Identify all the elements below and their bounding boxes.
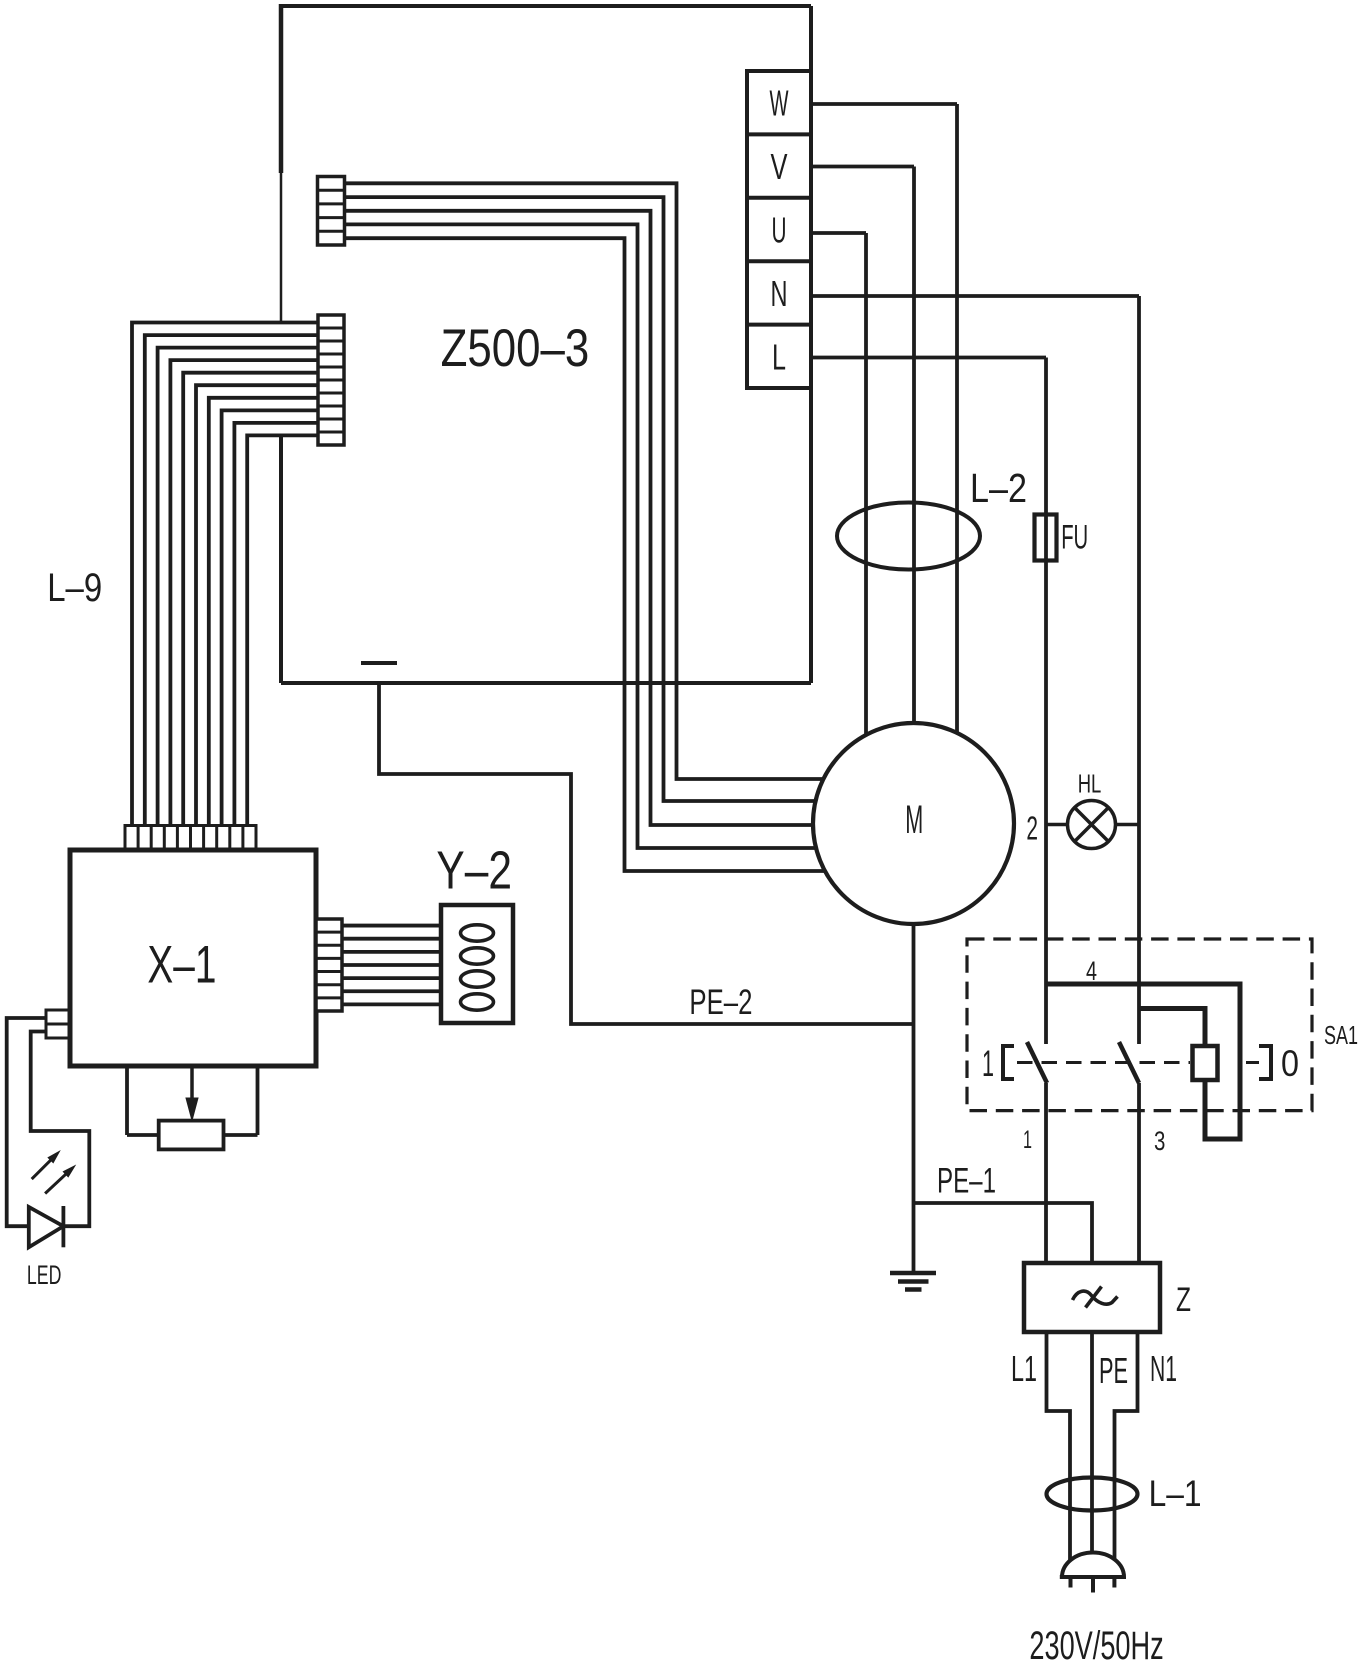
- svg-text:PE–2: PE–2: [689, 983, 752, 1022]
- svg-text:M: M: [905, 798, 923, 842]
- svg-text:0: 0: [1281, 1043, 1299, 1084]
- svg-text:LED: LED: [27, 1260, 62, 1290]
- svg-text:X–1: X–1: [147, 936, 216, 995]
- svg-text:L–9: L–9: [47, 566, 102, 610]
- svg-text:1: 1: [1023, 1126, 1032, 1154]
- svg-text:L1: L1: [1011, 1348, 1037, 1389]
- svg-text:Y–2: Y–2: [436, 841, 512, 901]
- svg-text:PE–1: PE–1: [937, 1162, 996, 1201]
- svg-text:230V/50Hz: 230V/50Hz: [1029, 1624, 1163, 1667]
- svg-text:U: U: [772, 210, 787, 251]
- svg-text:L: L: [772, 336, 786, 377]
- svg-text:N: N: [771, 273, 788, 314]
- svg-text:1: 1: [982, 1043, 994, 1084]
- svg-text:N1: N1: [1150, 1348, 1177, 1389]
- svg-text:FU: FU: [1061, 519, 1088, 557]
- svg-text:W: W: [770, 83, 789, 124]
- svg-text:4: 4: [1086, 956, 1097, 986]
- svg-text:2: 2: [1026, 810, 1038, 847]
- svg-text:Z: Z: [1176, 1281, 1191, 1319]
- svg-text:Z500–3: Z500–3: [441, 319, 590, 378]
- svg-text:PE: PE: [1099, 1350, 1128, 1391]
- svg-text:HL: HL: [1078, 768, 1102, 798]
- svg-text:V: V: [771, 146, 788, 187]
- svg-text:3: 3: [1154, 1126, 1165, 1156]
- svg-text:L–2: L–2: [970, 465, 1027, 511]
- svg-text:L–1: L–1: [1149, 1473, 1202, 1514]
- svg-text:SA1: SA1: [1324, 1020, 1358, 1050]
